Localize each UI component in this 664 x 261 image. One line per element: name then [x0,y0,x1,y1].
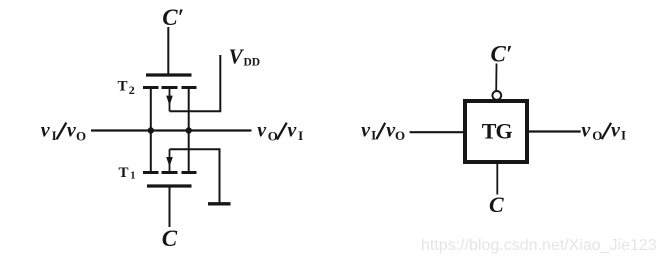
svg-text:I: I [371,128,376,143]
svg-text:v: v [611,120,621,142]
svg-text:C′: C′ [162,5,184,30]
svg-text:https://blog.csdn.net/Xiao_Jie: https://blog.csdn.net/Xiao_Jie123 [421,237,657,254]
svg-text:TG: TG [482,118,513,143]
svg-text:1: 1 [130,171,135,182]
svg-text:T: T [118,79,128,95]
svg-text:V: V [229,45,245,69]
svg-text:DD: DD [244,57,261,69]
svg-text:I: I [298,128,303,143]
svg-text:v: v [581,120,591,142]
svg-text:O: O [268,129,278,144]
svg-text:v: v [41,119,51,141]
svg-text:I: I [621,128,626,143]
svg-text:C′: C′ [491,41,513,66]
svg-text:O: O [76,129,86,144]
svg-text:2: 2 [129,83,135,97]
svg-text:I: I [52,128,57,143]
svg-text:C: C [489,192,504,217]
svg-text:O: O [395,128,405,143]
svg-text:T: T [119,165,129,181]
svg-text:v: v [287,120,297,142]
svg-text:O: O [592,128,602,143]
svg-text:v: v [361,120,371,142]
svg-text:C: C [162,226,178,251]
svg-text:v: v [257,120,267,142]
